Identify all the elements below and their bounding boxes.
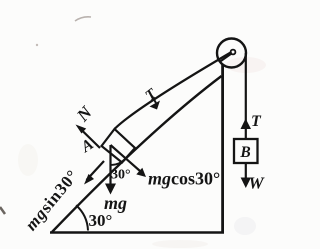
svg-text:B: B bbox=[239, 144, 250, 161]
pulley U1 bbox=[217, 39, 246, 68]
weight W arrow on block B bbox=[245, 163, 247, 181]
component mgsin30 arrow bbox=[87, 161, 105, 180]
svg-text:30°: 30° bbox=[89, 211, 113, 230]
tension arrowhead up on right rope bbox=[241, 119, 252, 130]
component mgcos30 arrow bbox=[111, 145, 141, 171]
svg-text:mgcos30°: mgcos30° bbox=[148, 169, 220, 189]
faint paper smudges bbox=[226, 57, 266, 73]
block A bbox=[102, 129, 136, 163]
svg-text:mg: mg bbox=[104, 193, 127, 213]
leader arrow for T bbox=[152, 96, 156, 103]
rope from block A to pulley bbox=[115, 52, 232, 129]
normal force N arrow bbox=[79, 128, 100, 149]
angle arc at base vertex bbox=[76, 205, 88, 230]
incline base wire bbox=[50, 231, 224, 234]
svg-text:30°: 30° bbox=[111, 168, 131, 183]
pulley axle line bbox=[220, 54, 232, 63]
angle arc at block 30 bbox=[111, 158, 126, 165]
weight mg arrow bbox=[109, 145, 111, 187]
svg-text:W: W bbox=[249, 174, 266, 193]
faint dot left bbox=[36, 44, 38, 46]
faint pencil mark top bbox=[75, 17, 91, 21]
block B bbox=[234, 139, 258, 163]
svg-text:T: T bbox=[251, 113, 262, 130]
pulley axle bbox=[231, 50, 236, 55]
incline vertical side wire bbox=[221, 65, 224, 234]
incline hypotenuse wire bbox=[52, 76, 222, 232]
rope pulley to block B bbox=[245, 53, 247, 139]
faint smudge left edge bbox=[0, 207, 5, 214]
